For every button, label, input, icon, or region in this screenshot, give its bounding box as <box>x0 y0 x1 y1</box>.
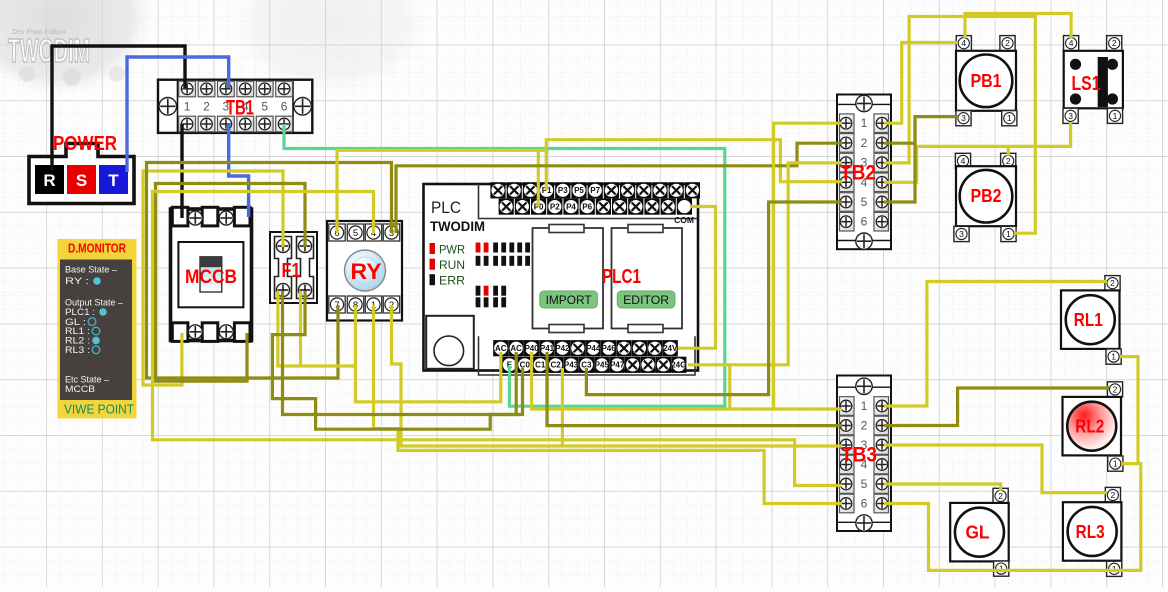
RY terminal 7 <box>329 296 345 313</box>
TB1 pin 6 top screw <box>276 81 293 97</box>
PLC indicator ERR <box>430 274 436 285</box>
wire branch to PLC P0 (yellow) <box>537 150 540 206</box>
svg-text:PLC1: PLC1 <box>602 265 641 288</box>
LS1 terminal 3 <box>1063 108 1078 123</box>
svg-text:4: 4 <box>961 38 966 48</box>
svg-text:6: 6 <box>281 100 288 114</box>
svg-text:1: 1 <box>1112 564 1117 574</box>
TB1 pin 4 bottom screw <box>237 116 254 132</box>
MCCB face plate <box>178 242 243 307</box>
wire TB1-3 to MCCB top (blue) <box>229 124 249 217</box>
F1 top-right screw <box>298 239 311 252</box>
svg-text:24V: 24V <box>663 344 678 353</box>
TB1 pin 5 top screw <box>256 81 273 97</box>
wire PLC C3 to TB2-5 left (olive) <box>586 202 842 395</box>
svg-text:ERR: ERR <box>439 274 465 288</box>
wire PB1-4 to LS1-4 (yellow) <box>965 14 1071 39</box>
svg-text:4: 4 <box>1069 38 1074 48</box>
svg-text:2: 2 <box>1005 38 1010 48</box>
svg-text:1: 1 <box>999 564 1004 574</box>
lamp RL3 <box>1063 502 1122 561</box>
wire RY-3 to RY-7 (olive) <box>147 163 392 379</box>
wire PLC P41 to TB3-2 left (olive) <box>547 352 842 426</box>
svg-text:P45: P45 <box>595 361 610 370</box>
svg-text:P6: P6 <box>582 202 592 211</box>
LS1 terminal 4 <box>1064 36 1079 51</box>
TB3 pin 5 left screw <box>840 475 855 494</box>
svg-text:COM: COM <box>674 215 694 225</box>
F1 bottom-right screw <box>298 283 311 296</box>
svg-text:P3: P3 <box>558 186 568 195</box>
wire TB2-4 right to LS1-3 with PB2-2 branch (yellow) <box>884 122 1071 182</box>
TB1 pin 5 bottom screw <box>256 116 273 132</box>
wire RL1-1 to RL2-1 (yellow) <box>1120 357 1138 464</box>
svg-text:P5: P5 <box>574 186 584 195</box>
push button PB2 <box>956 166 1016 226</box>
RY terminal 8 <box>347 296 363 313</box>
TB2 pin 2 right screw <box>874 134 889 153</box>
svg-text:RL3: RL3 <box>1076 521 1105 542</box>
PLC output terminal row upper (AC P40-P46 24V) <box>493 340 508 356</box>
TB2 pin 1 right screw <box>874 114 889 133</box>
wire PB1-3 leg to TB2-5 right (olive) <box>884 117 915 202</box>
svg-text:4: 4 <box>961 156 966 166</box>
wire PLC P42 to TB3-3 rail (yellow) <box>561 368 564 446</box>
svg-text:P41: P41 <box>540 344 555 353</box>
svg-text:6: 6 <box>861 497 868 511</box>
wire RY-2 to TB3-3 left (yellow) <box>392 305 843 446</box>
svg-text:1: 1 <box>861 399 868 413</box>
wire F1 top-right to MCCB bottom-3 (olive) <box>156 184 306 382</box>
svg-text:AC: AC <box>510 344 522 353</box>
RL3 terminal 1 <box>1107 561 1122 576</box>
wire RY-1 to TB3-6 left (yellow) <box>374 305 843 504</box>
TB3 pin 4 right screw <box>874 455 889 474</box>
svg-text:2: 2 <box>1113 384 1118 394</box>
TB2 pin 1 left screw <box>840 114 855 133</box>
wire TB3-5 right to GL-2 (yellow) <box>884 484 1001 491</box>
svg-text:R: R <box>43 171 55 190</box>
svg-text:RL1: RL1 <box>1074 309 1103 330</box>
GL terminal 1 <box>994 561 1009 576</box>
svg-text:S: S <box>76 171 87 190</box>
PLC module slot 1 <box>533 228 604 329</box>
RL2 terminal 1 <box>1108 456 1123 471</box>
lamp GL <box>950 503 1009 562</box>
svg-text:P2: P2 <box>550 202 560 211</box>
wire RY-4 to TB3-5 left (yellow) <box>153 192 843 486</box>
TB2 pin 5 right screw <box>874 193 889 212</box>
TB3 top mount screw <box>856 378 872 394</box>
wire TB2-1 right to PB1-4 (yellow) <box>884 43 958 124</box>
TB1 left mount screw <box>159 98 177 116</box>
limit switch LS1 <box>1064 51 1123 109</box>
svg-text:P40: P40 <box>524 344 539 353</box>
RY terminal 3 <box>383 224 399 241</box>
svg-text:1: 1 <box>184 100 191 114</box>
F1 fuse element right <box>297 237 314 299</box>
TB1 right mount screw <box>294 98 312 116</box>
MCCB top screw A <box>188 211 202 225</box>
relay RY <box>327 221 402 321</box>
svg-text:AC: AC <box>495 344 507 353</box>
svg-text:PWR: PWR <box>439 243 465 257</box>
MCCB top screw B <box>219 211 233 225</box>
wire RY-6 to TB2-4 left (yellow) <box>337 140 842 233</box>
TB1 pin 6 bottom screw <box>276 116 293 132</box>
TB3 pin 2 left screw <box>840 416 855 435</box>
MCCB bottom tab 3 <box>234 323 250 342</box>
svg-text:TB3: TB3 <box>841 444 877 467</box>
RY terminal 4 <box>365 224 381 241</box>
PB2 terminal 2 <box>1001 153 1016 168</box>
svg-text:5: 5 <box>861 195 868 209</box>
monitor panel D.MONITOR <box>58 239 137 419</box>
svg-text:VIWE POINT: VIWE POINT <box>64 402 134 417</box>
TB1 pin 3 bottom screw <box>218 116 235 132</box>
svg-text:1: 1 <box>1007 113 1012 123</box>
svg-text:MCCB: MCCB <box>185 267 237 288</box>
MCCB bottom tab 1 <box>172 323 188 342</box>
svg-text:P47: P47 <box>610 361 625 370</box>
push button PB1 <box>956 51 1016 111</box>
wire PB2-2 stub (yellow) <box>1007 146 1010 156</box>
TB3 pin 1 left screw <box>840 397 855 416</box>
wire branch to PLC P1 (yellow) <box>545 150 548 190</box>
TB2 pin 2 left screw <box>840 134 855 153</box>
TB1 pin 1 top screw <box>179 81 196 97</box>
terminal block TB1 <box>158 80 312 133</box>
svg-text:2: 2 <box>861 136 868 150</box>
watermark TWODIM logo <box>0 0 430 98</box>
TB2 pin 4 right screw <box>874 173 889 192</box>
wire RY-3 to TB2-2 left (olive) <box>396 143 842 233</box>
TB1 pin 4 top screw <box>237 81 254 97</box>
svg-text:1: 1 <box>1111 352 1116 362</box>
MCCB top tab 3 <box>234 207 250 226</box>
wire TB3-2 right to RL2-2 (olive) <box>884 388 1109 426</box>
svg-text:1: 1 <box>1113 111 1118 121</box>
svg-text:P43: P43 <box>564 361 579 370</box>
wire POWER T to TB1-3 (blue) <box>127 57 229 172</box>
svg-text:TWODIM: TWODIM <box>430 219 485 234</box>
F1 top-left screw <box>276 239 289 252</box>
wire F1 top-left to MCCB bottom-1 (yellow) <box>143 171 283 385</box>
TB3 pin 3 right screw <box>874 436 889 455</box>
MCCB bottom tab 2 <box>202 323 218 342</box>
circuit breaker MCCB <box>171 207 252 341</box>
svg-text:24G: 24G <box>671 361 686 370</box>
wire TB2-3 left to 24G rail (yellow) <box>730 163 842 365</box>
svg-text:2: 2 <box>861 419 868 433</box>
svg-text:MCCB: MCCB <box>65 384 95 395</box>
svg-text:1: 1 <box>861 116 868 130</box>
svg-text:3: 3 <box>959 229 964 239</box>
TB2 pin 4 left screw <box>840 173 855 192</box>
button IMPORT <box>540 291 598 308</box>
MCCB top tab 2 <box>202 207 218 226</box>
svg-text:RY :: RY : <box>65 276 89 287</box>
svg-text:PB2: PB2 <box>971 186 1002 206</box>
PLC indicator RUN <box>430 259 436 270</box>
TB2 pin 6 left screw <box>840 212 855 231</box>
RY terminal 5 <box>347 224 363 241</box>
PB1 terminal 1 <box>1002 111 1017 126</box>
svg-text:RUN: RUN <box>439 258 465 272</box>
power source POWER (R S T) <box>29 133 134 204</box>
TB3 pin 6 left screw <box>840 494 855 513</box>
svg-text:PLC: PLC <box>431 198 461 217</box>
MCCB switch handle <box>200 257 222 292</box>
TB2 bottom mount screw <box>856 233 872 249</box>
svg-text:TB2: TB2 <box>840 162 876 185</box>
svg-text:TB1: TB1 <box>226 97 254 120</box>
PLC output terminal row lower (E C0-C3 P43-P47 24G) <box>502 357 517 373</box>
svg-text:P44: P44 <box>586 344 601 353</box>
PLC LED block lower <box>476 286 481 296</box>
TB3 pin 6 right screw <box>874 494 889 513</box>
terminal block TB2 <box>837 95 891 250</box>
TB1 pin 2 top screw <box>198 81 215 97</box>
wire POWER R to TB1-1 (black) <box>52 46 185 170</box>
PLC speaker box <box>426 316 474 369</box>
RY terminal 6 <box>329 224 345 241</box>
svg-text:2: 2 <box>1110 278 1115 288</box>
TB2 pin 3 right screw <box>874 153 889 172</box>
wire TB3-1 right to RL1-2 (yellow) <box>884 282 1107 407</box>
PB2 terminal 4 <box>955 153 970 168</box>
MCCB bottom screw A <box>188 325 202 339</box>
PB1 terminal 3 <box>956 111 971 126</box>
terminal S <box>67 165 96 194</box>
svg-text:RY: RY <box>351 259 382 284</box>
svg-text:5: 5 <box>861 477 868 491</box>
RL1 terminal 2 <box>1105 276 1120 291</box>
wire F1 bottom-right to PLC AC2 (olive) <box>272 291 516 429</box>
wire TB2-1 left to common rail (yellow) <box>774 123 842 409</box>
TB2 pin 6 right screw <box>874 212 889 231</box>
svg-text:P46: P46 <box>601 344 616 353</box>
PB1 terminal 4 <box>956 36 971 51</box>
svg-text:1: 1 <box>1006 229 1011 239</box>
fuse holder F1 <box>270 232 317 303</box>
wire RY-8 to PLC AC1 (yellow) <box>356 305 501 402</box>
TB3 pin 4 left screw <box>840 455 855 474</box>
wire TB1-6 to PLC E terminal (green) <box>284 124 725 406</box>
wire PLC P40 to TB3-1 left (yellow) <box>532 352 842 409</box>
svg-text:5: 5 <box>353 228 358 239</box>
svg-text:3: 3 <box>961 113 966 123</box>
TB3 pin 1 right screw <box>874 397 889 416</box>
wire TB3-6 right to GL-1 / RL3-1 return (yellow) <box>884 464 1141 571</box>
RY terminal 1 <box>365 296 381 313</box>
svg-text:2: 2 <box>1111 490 1116 500</box>
svg-text:T: T <box>108 171 119 190</box>
TB1 pin 1 bottom screw <box>179 116 196 132</box>
TB3 pin 3 left screw <box>840 436 855 455</box>
terminal block TB3 <box>837 376 891 532</box>
LS1 terminal 1 <box>1107 108 1122 123</box>
TB3 bottom mount screw <box>856 515 872 531</box>
lamp RL1 <box>1061 290 1120 349</box>
svg-text:IMPORT: IMPORT <box>546 295 592 307</box>
svg-text:5: 5 <box>261 100 268 114</box>
TB3 pin 5 right screw <box>874 475 889 494</box>
PLC unit PLC1 <box>424 182 701 375</box>
MCCB top tab 1 <box>172 207 188 226</box>
svg-text:GL: GL <box>965 522 989 543</box>
wire F1 bottom-left tie (yellow) <box>278 291 356 366</box>
svg-text:2: 2 <box>998 491 1003 501</box>
GL terminal 2 <box>993 488 1008 503</box>
svg-text:RL2: RL2 <box>1075 416 1104 437</box>
TB2 top mount screw <box>856 95 872 111</box>
button EDITOR <box>617 291 675 308</box>
RL1 terminal 1 <box>1106 349 1121 364</box>
TB1 pin 2 bottom screw <box>198 116 215 132</box>
svg-text:PB1: PB1 <box>971 71 1002 91</box>
svg-text:P42: P42 <box>555 344 570 353</box>
svg-text:1: 1 <box>1113 459 1118 469</box>
F1 bottom-left screw <box>276 283 289 296</box>
PB1 terminal 2 <box>1000 36 1015 51</box>
svg-text:C2: C2 <box>550 361 561 370</box>
svg-text:POWER: POWER <box>53 133 117 155</box>
svg-text:2: 2 <box>1006 156 1011 166</box>
PLC top terminal strip outline <box>479 184 698 219</box>
PB2 terminal 1 <box>1001 226 1016 241</box>
svg-text:2: 2 <box>203 100 210 114</box>
wire F1 bottom-left to PLC C0 (olive) <box>283 291 523 415</box>
PLC input terminal row lower (P0 P2 P4 P6, COM) <box>499 199 514 215</box>
F1 fuse element left <box>275 237 292 299</box>
PLC LED block upper <box>476 243 481 253</box>
svg-text:F1: F1 <box>282 260 301 282</box>
PLC module slot 2 <box>612 228 683 329</box>
wire PLC COM to PLC 24V (yellow) <box>678 207 716 349</box>
RY body circle <box>345 250 386 291</box>
PLC output terminal strip outline <box>479 336 696 375</box>
svg-text:P4: P4 <box>566 202 576 211</box>
PB2 terminal 3 <box>954 226 969 241</box>
svg-text:D.MONITOR: D.MONITOR <box>68 242 126 256</box>
RY terminal 2 <box>383 296 399 313</box>
RL3 terminal 2 <box>1105 487 1120 502</box>
TB2 pin 5 left screw <box>840 193 855 212</box>
TB3 pin 2 right screw <box>874 416 889 435</box>
svg-text:LS1: LS1 <box>1072 73 1101 95</box>
svg-text:EDITOR: EDITOR <box>623 295 669 307</box>
wire F1 bottom-right tie (yellow) <box>299 291 302 366</box>
RL2 terminal 2 <box>1107 382 1122 397</box>
TB1 pin 3 top screw <box>218 81 235 97</box>
terminal T <box>99 165 128 194</box>
svg-text:6: 6 <box>861 215 868 229</box>
wire TB2-3 right to PB2-1 (yellow) <box>884 17 1035 234</box>
svg-text:3: 3 <box>1068 111 1073 121</box>
wire TB1-1 to MCCB top (black) <box>180 124 183 218</box>
PLC indicator PWR <box>430 243 436 254</box>
terminal R <box>35 165 64 194</box>
wire TB2-2 right to PB1-3 (olive) <box>884 117 958 144</box>
svg-text:P7: P7 <box>590 186 600 195</box>
wire TB3-3 right to RL3-2 (yellow) <box>884 445 1107 493</box>
PLC input terminal row upper (P1 P3 P5 P7) <box>490 182 505 198</box>
wire PLC 24G down to rail (yellow) <box>688 365 730 409</box>
svg-text:C1: C1 <box>535 361 546 370</box>
svg-text:2: 2 <box>1112 38 1117 48</box>
TB2 pin 3 left screw <box>840 153 855 172</box>
MCCB bottom screw B <box>219 325 233 339</box>
lamp RL2 (lit) <box>1063 397 1122 456</box>
svg-text:RL3 :: RL3 : <box>65 345 90 356</box>
svg-text:Base State –: Base State – <box>65 265 118 276</box>
LS1 terminal 2 <box>1107 36 1122 51</box>
